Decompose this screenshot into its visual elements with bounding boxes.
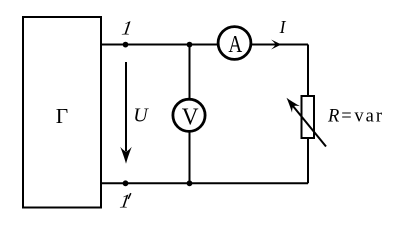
svg-text:1: 1 bbox=[120, 18, 133, 40]
svg-text:R: R bbox=[327, 107, 339, 127]
svg-text:=: = bbox=[341, 107, 351, 127]
svg-text:I: I bbox=[279, 17, 287, 37]
svg-text:var: var bbox=[354, 107, 384, 127]
svg-text:A: A bbox=[228, 31, 242, 58]
svg-text:Γ: Γ bbox=[56, 104, 68, 128]
svg-text:V: V bbox=[182, 104, 199, 131]
svg-text:U: U bbox=[133, 105, 149, 127]
